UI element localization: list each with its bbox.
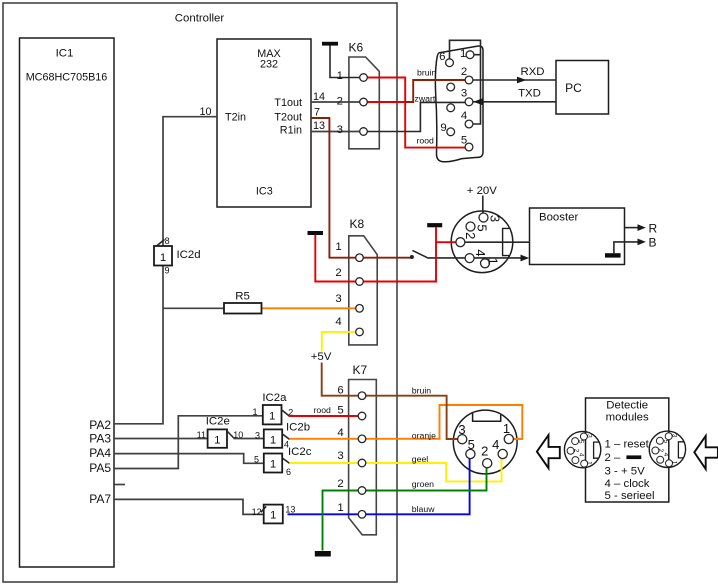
svg-text:1 – reset: 1 – reset [605,439,650,451]
wire IC2b to K7 pin4 then DIN pin1 (oranje) [289,405,522,439]
svg-text:4: 4 [473,249,488,256]
wire TXD [473,88,556,106]
svg-text:2: 2 [335,267,341,279]
svg-text:Controller: Controller [175,13,225,25]
ground bar (legend line 2) [626,455,641,459]
DIN K7-cable pin labels [458,421,510,459]
svg-text:3: 3 [488,215,503,222]
DB9 connector body [435,46,483,162]
svg-text:3 - + 5V: 3 - + 5V [605,465,646,477]
svg-text:1: 1 [160,252,166,264]
svg-text:11: 11 [197,430,206,440]
switch lever [412,250,427,257]
DIN5 connector (booster) [451,211,513,273]
wire Booster R output [625,222,658,236]
svg-text:blauw: blauw [412,504,435,514]
wire K6 pin1 to DB9 pin5 (rood) [364,78,470,148]
svg-text:R1in: R1in [280,125,302,137]
switch node dot [410,255,414,259]
svg-text:geel: geel [412,454,428,464]
svg-text:1: 1 [335,241,341,253]
svg-text:T2out: T2out [274,111,302,123]
wire switch to DIN pin4 to Booster [427,255,529,262]
controller box [3,3,397,582]
buffer IC2c [254,446,312,477]
IC1 MC68HC705B16 [20,38,115,567]
ground bar (+20V side) [427,223,442,227]
wire PA6 stub [114,484,125,486]
svg-text:bruin: bruin [412,386,431,396]
svg-text:5: 5 [475,224,490,231]
svg-text:PA4: PA4 [89,446,111,460]
svg-text:5: 5 [468,437,475,452]
svg-text:Detectie: Detectie [606,400,648,412]
svg-text:2: 2 [481,444,488,459]
svg-text:modules: modules [606,412,649,424]
wire K6 pin3 to DB9 pin3 (zwart) [364,102,470,131]
svg-text:1: 1 [337,502,343,514]
wire T1out to K6 pin2 [311,101,360,103]
pin 13 label [313,120,325,132]
wire IC2f to K7 pin1 then DIN pin5 (blauw) [288,454,470,514]
svg-text:14: 14 [313,91,325,103]
wire +5V to K7 pin6 (brown) [322,363,362,396]
K6 pin labels [337,70,343,136]
svg-text:4: 4 [577,453,584,457]
svg-text:4 – clock: 4 – clock [605,478,650,490]
svg-text:6: 6 [439,51,445,63]
svg-text:4: 4 [662,453,669,457]
connector K7 body [349,363,377,535]
svg-text:3: 3 [337,124,343,136]
pin 14 label [313,91,325,103]
wire to DB9 pin2 (bruin) [405,80,470,102]
svg-text:+5V: +5V [311,351,332,363]
Booster box [530,208,625,265]
svg-text:PA2: PA2 [89,418,111,432]
svg-text:2 –: 2 – [605,452,621,464]
buffer IC2a [252,392,293,424]
svg-text:1: 1 [252,407,257,417]
svg-text:1: 1 [485,258,500,265]
svg-text:3: 3 [335,293,341,305]
Detectie modules box [586,398,669,502]
svg-text:+ 20V: + 20V [467,185,497,197]
svg-text:1: 1 [214,435,220,447]
svg-text:12: 12 [252,507,262,517]
K8 pin labels [335,241,341,328]
svg-text:3: 3 [255,430,260,440]
svg-text:5: 5 [577,440,584,444]
svg-text:rood: rood [417,136,435,146]
DIN booster pin labels (rotated) [463,215,503,265]
svg-text:2: 2 [461,66,467,78]
DB9 pin circles [446,51,474,151]
svg-text:1: 1 [586,461,593,465]
svg-text:1: 1 [503,421,510,436]
block arrow (left of detectie) [537,435,560,468]
svg-text:IC2c: IC2c [288,446,312,458]
wire K7 pin6 to DIN pin3 (bruin) [362,396,462,439]
svg-text:IC3: IC3 [256,185,273,197]
svg-text:6: 6 [286,467,291,477]
small DIN left [564,431,600,467]
svg-text:3: 3 [670,434,677,438]
svg-text:4: 4 [492,437,499,452]
pin 7 label [314,107,320,119]
DB9 pin labels [439,48,467,147]
wire T2out to K8 pin1 (brown) [311,118,411,258]
ground at K6 and wire to pin1 [322,42,360,78]
wire PA4 to IC2c [114,454,264,464]
svg-text:9: 9 [440,122,446,134]
svg-text:6: 6 [337,385,343,397]
label zwart [415,94,436,104]
svg-text:IC2d: IC2d [177,249,201,261]
svg-text:K7: K7 [353,363,368,377]
svg-text:2: 2 [337,96,343,108]
label bruin [417,68,436,78]
buffer IC2b [255,422,310,450]
svg-text:3: 3 [458,422,465,437]
wire R1in to K6 pin3 [311,131,360,133]
wire K8 pin4 to +5V (yellow) [322,332,360,352]
svg-text:PA5: PA5 [89,461,111,475]
svg-text:1: 1 [671,461,678,465]
svg-text:R5: R5 [235,291,250,303]
connector K6 body [349,41,380,149]
wire DIN pin2 to Booster [464,241,529,243]
label geel [412,454,428,464]
svg-text:1: 1 [337,70,343,82]
wire PA7 to IC2f [114,499,264,514]
svg-text:13: 13 [313,120,325,132]
K7 pin labels [337,385,343,515]
svg-text:1: 1 [269,411,275,423]
svg-text:1: 1 [270,435,276,447]
wire K6 pin2 (red segment) [364,101,406,103]
wire R5 to K8 pin3 (orange) [262,307,360,309]
svg-text:RXD: RXD [520,66,544,78]
svg-text:7: 7 [314,107,320,119]
svg-text:IC2a: IC2a [262,392,287,404]
svg-text:PA7: PA7 [89,492,111,506]
small DIN right [649,431,685,467]
label groen [412,479,434,489]
svg-text:PC: PC [565,81,582,95]
svg-text:5: 5 [254,455,259,465]
svg-text:2: 2 [337,478,343,490]
svg-text:1: 1 [270,459,276,471]
IC3 MAX232 [217,39,311,207]
DIN K7-cable pin circles [458,434,514,467]
resistor R5 [224,291,262,314]
svg-text:oranje: oranje [412,431,436,441]
svg-text:232: 232 [260,59,278,71]
svg-text:1: 1 [460,48,466,60]
svg-text:T1out: T1out [274,97,302,109]
pin 10 label [199,106,211,118]
K8 pin circles [356,254,364,336]
svg-text:IC2e: IC2e [206,416,230,428]
wire PA5 to IC2a [114,416,263,469]
label +20V and stem to DIN pin3 [467,185,497,213]
svg-text:IC2b: IC2b [286,422,310,434]
svg-text:IC1: IC1 [56,48,74,60]
svg-text:10: 10 [233,430,243,440]
wire ground to K7 pin2 then DIN pin2 (groen) [323,463,487,550]
buffer IC2d [154,236,201,276]
wire T2in via IC2d to PA2, branch to R5 [114,117,224,424]
wire RXD [473,66,556,83]
svg-text:3: 3 [461,88,467,100]
label +5V [311,351,332,363]
ground bar (bottom, groen) [315,551,331,557]
block arrow (right of detectie) [694,436,718,469]
svg-text:4: 4 [335,316,341,328]
svg-text:5 - serieel: 5 - serieel [605,490,655,502]
svg-text:K8: K8 [350,217,365,231]
ground in Booster and B output [605,236,657,258]
svg-text:4: 4 [461,110,467,122]
svg-text:2: 2 [463,232,478,239]
svg-text:zwart: zwart [415,94,436,104]
svg-text:13: 13 [285,505,295,515]
label bruin (K7) [412,386,431,396]
PA pin labels [89,418,111,506]
wire K8 pin2 ground net (red) [315,227,460,281]
svg-text:1: 1 [270,510,276,522]
svg-text:TXD: TXD [518,88,541,100]
DIN5 connector (K7 cable) [453,410,517,474]
ground bar (K8 inside controller) [308,231,324,235]
connector K8 body [349,217,377,345]
PC box [556,61,609,115]
svg-text:9: 9 [165,266,170,276]
wire PA3 to IC2e [114,438,208,440]
label oranje [412,431,436,441]
wire IC2c to K7 pin3 then DIN pin4 (geel) [289,454,501,481]
label rood [417,136,435,146]
svg-text:4: 4 [337,427,343,439]
buffer IC2f [252,505,296,524]
svg-text:B: B [649,236,657,250]
DB9 tie bracket pins 1-4-6 [450,40,481,124]
svg-text:MC68HC705B16: MC68HC705B16 [26,72,108,84]
svg-text:Booster: Booster [539,212,578,224]
svg-text:3: 3 [586,434,593,438]
wire IC2e to IC2b [234,438,264,440]
svg-text:T2in: T2in [225,111,246,123]
wire IC2a to K7 pin5 (rood) [289,415,362,417]
svg-text:5: 5 [337,405,343,417]
label rood (K7) [314,405,332,415]
svg-text:PA3: PA3 [89,431,111,445]
DIN booster pin circles [456,213,490,268]
svg-text:3: 3 [337,450,343,462]
svg-text:5: 5 [662,440,669,444]
svg-text:groen: groen [412,479,434,489]
svg-text:bruin: bruin [417,68,436,78]
svg-text:rood: rood [314,405,332,415]
label blauw [412,504,435,514]
K7 pin circles [358,392,366,518]
svg-text:8: 8 [165,236,170,246]
buffer IC2e [197,416,244,448]
svg-text:K6: K6 [349,41,364,55]
label Controller [175,13,225,25]
svg-text:5: 5 [461,135,467,147]
K6 pin circles [360,74,368,136]
svg-text:R: R [649,222,658,236]
